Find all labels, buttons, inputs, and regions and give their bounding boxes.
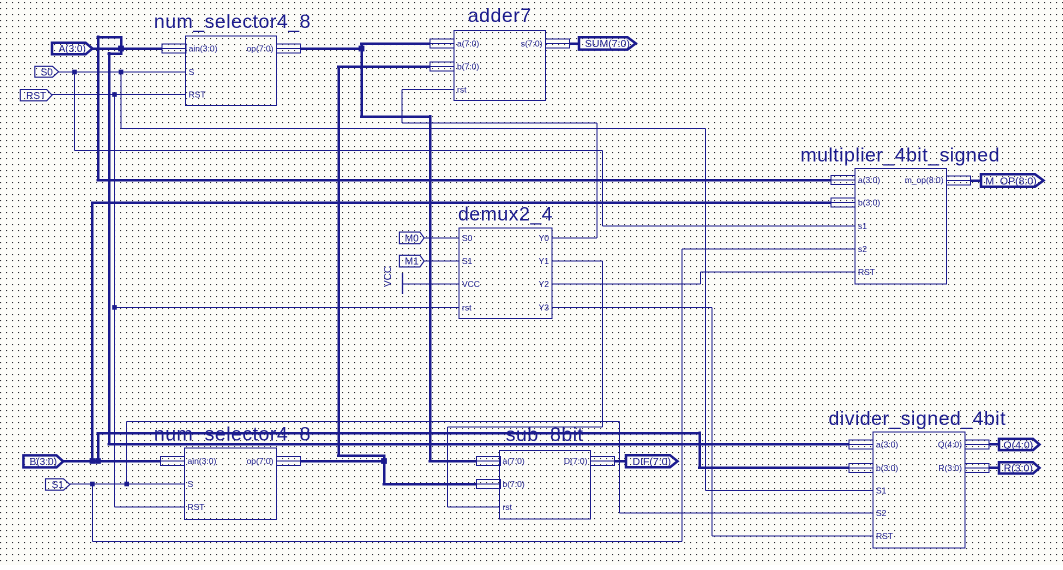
svg-text:VCC: VCC bbox=[383, 266, 394, 287]
wire divider R(3:0) to R tag bbox=[989, 467, 1000, 470]
wire S0 branch down x=74.5 bbox=[74, 72, 76, 151]
svg-text:RST: RST bbox=[26, 91, 46, 102]
wire S0 vertical x=602.5 bbox=[602, 151, 604, 226]
wire VCC symbol to demux VCC bbox=[403, 283, 460, 285]
wire adder s(7:0) to SUM tag bbox=[570, 42, 581, 45]
wire S1 tag to U6 S pin bbox=[70, 483, 185, 485]
wire A top bar to x=98 bbox=[97, 36, 123, 39]
input port RST bbox=[20, 90, 52, 102]
wire Y0 vertical x=402 bbox=[401, 90, 403, 124]
wire S1 branch down x=92.4 bbox=[91, 484, 93, 542]
svg-text:D(7:0): D(7:0) bbox=[564, 456, 588, 466]
wire op2 vertical x=384 bbox=[383, 456, 386, 485]
wire demux Y3 out bbox=[552, 306, 712, 308]
wire Y1 to sub rst bbox=[448, 506, 500, 508]
wire Y0 across y=123.2 bbox=[402, 122, 597, 124]
svg-text:b(3:0): b(3:0) bbox=[876, 463, 898, 473]
wire U1 op(7:0) to junction bbox=[301, 47, 362, 50]
component U5 sub_8bit bbox=[477, 424, 615, 519]
svg-text:b(7:0): b(7:0) bbox=[503, 479, 525, 489]
svg-text:S1: S1 bbox=[52, 480, 65, 491]
svg-text:s2: s2 bbox=[858, 244, 867, 254]
svg-text:b(3:0): b(3:0) bbox=[858, 198, 880, 208]
wire S0 across y=150.5 bbox=[75, 150, 603, 152]
wire S1 to multiplier s2 bbox=[682, 248, 855, 250]
svg-text:b(7:0): b(7:0) bbox=[457, 62, 479, 72]
component U1 num_selector4_8 (top) bbox=[154, 11, 311, 105]
input port B(3:0) bbox=[23, 455, 63, 468]
wire S0 vertical x=705.5 bbox=[705, 129, 707, 491]
wire RST tag to U1 RST pin bbox=[52, 94, 186, 96]
svg-text:num_selector4_8: num_selector4_8 bbox=[154, 424, 311, 446]
wire op2 to adder b(7:0) bbox=[337, 65, 430, 68]
component U6 num_selector4_8 (bottom) bbox=[154, 424, 311, 520]
output port SUM(7:0) bbox=[579, 37, 636, 50]
svg-text:rst: rst bbox=[462, 302, 472, 312]
power symbol VCC bbox=[383, 266, 403, 294]
junction S1 at (92.4,484) bbox=[90, 482, 95, 487]
svg-text:a(7:0): a(7:0) bbox=[503, 456, 525, 466]
input port S1 bbox=[46, 479, 70, 491]
input port S0 bbox=[35, 66, 59, 78]
svg-text:S0: S0 bbox=[41, 67, 54, 78]
wire M1 tag to demux S1 bbox=[424, 260, 459, 262]
wire demux Y1 out bbox=[552, 260, 603, 262]
svg-text:B(3:0): B(3:0) bbox=[30, 457, 57, 468]
svg-text:Q(4:0): Q(4:0) bbox=[1003, 439, 1033, 451]
svg-text:S0: S0 bbox=[462, 233, 473, 243]
wire A vertical x=98 down to multiplier row bbox=[97, 36, 100, 180]
wire S0 branch down x=121 bbox=[120, 72, 122, 129]
wire op1 vertical x=430 down to sub row bbox=[429, 115, 432, 461]
svg-text:num_selector4_8: num_selector4_8 bbox=[154, 11, 311, 33]
wire A vertical x=109 down to divider row bbox=[108, 52, 111, 444]
svg-text:M0: M0 bbox=[405, 234, 419, 245]
component U7 divider_signed_4bit bbox=[829, 408, 1007, 548]
svg-text:RST: RST bbox=[188, 502, 205, 512]
wire multiplier m_op(8:0) to M_OP tag bbox=[971, 179, 983, 182]
wire demux Y2 out bbox=[552, 283, 701, 285]
component U3 demux2_4 bbox=[458, 204, 553, 319]
wire op1 to adder a(7:0) bbox=[360, 42, 430, 45]
wire RST to demux rst pin bbox=[115, 306, 460, 308]
junction B at (98,461) bbox=[95, 458, 101, 464]
svg-text:op(7:0): op(7:0) bbox=[247, 44, 274, 54]
wire B vertical x=92 up to multiplier row bbox=[91, 203, 94, 462]
wire demux Y0 out bbox=[552, 237, 597, 239]
svg-text:S1: S1 bbox=[462, 256, 473, 266]
wire B vertical x=98 up to y=433 bbox=[97, 433, 100, 461]
wire RST vertical x=114.5 bbox=[114, 95, 116, 508]
svg-text:s1: s1 bbox=[858, 221, 867, 231]
svg-text:RST: RST bbox=[189, 90, 206, 100]
junction S1 at (126.7,484) bbox=[124, 482, 129, 487]
svg-text:demux2_4: demux2_4 bbox=[458, 204, 553, 226]
svg-text:RST: RST bbox=[876, 531, 893, 541]
svg-text:rst: rst bbox=[457, 85, 467, 95]
svg-text:A(3:0): A(3:0) bbox=[59, 44, 86, 55]
wire A(3:0) tag to U1 ain stub bbox=[92, 47, 162, 50]
output port M_OP(8:0) bbox=[981, 174, 1044, 187]
svg-text:S1: S1 bbox=[876, 486, 887, 496]
wire Y3 vertical x=712 bbox=[711, 307, 713, 535]
wire A to multiplier a(3:0) bbox=[97, 179, 831, 182]
svg-text:M_OP(8:0): M_OP(8:0) bbox=[985, 175, 1036, 187]
svg-text:Q(4:0): Q(4:0) bbox=[938, 439, 962, 449]
svg-text:ain(3:0): ain(3:0) bbox=[188, 456, 217, 466]
wire divider Q(4:0) to Q tag bbox=[989, 443, 1000, 446]
wire S0 to divider S1 bbox=[706, 490, 874, 492]
svg-text:m_op(8:0): m_op(8:0) bbox=[905, 175, 944, 185]
svg-text:rst: rst bbox=[503, 502, 513, 512]
junction op1 at (361.5,48.5) bbox=[359, 46, 365, 52]
junction S0 at (74.5,72) bbox=[72, 70, 77, 75]
svg-text:Y0: Y0 bbox=[539, 233, 550, 243]
wire S1 across y=541.5 bbox=[92, 541, 682, 543]
svg-text:ain(3:0): ain(3:0) bbox=[189, 44, 218, 54]
output port DIF(7:0) bbox=[626, 455, 678, 468]
wire Y1 across y=427 bbox=[448, 426, 603, 428]
wire op1 jog at y=116.5 bbox=[360, 115, 431, 118]
wire S0 to multiplier s1 bbox=[603, 225, 856, 227]
wire RST to U6 RST pin bbox=[115, 506, 185, 508]
component U2 adder7 bbox=[430, 5, 570, 100]
input port M0 bbox=[399, 232, 424, 244]
wire S0 across y=128.5 bbox=[121, 128, 706, 130]
wire Y2 jog x=700.6 bbox=[700, 272, 702, 284]
wire S1 across y=421.3 bbox=[127, 420, 620, 422]
svg-text:multiplier_4bit_signed: multiplier_4bit_signed bbox=[800, 145, 1000, 167]
wire B vertical x=699.5 bbox=[698, 432, 701, 468]
wire S0 tag to U1 s pin bbox=[59, 71, 186, 73]
svg-text:R(3:0): R(3:0) bbox=[1004, 463, 1033, 475]
wire op1 to sub a(7:0) bbox=[429, 460, 477, 463]
wire Y0 to adder rst bbox=[402, 89, 454, 91]
wire op2 jog at y=455.5 bbox=[337, 454, 385, 457]
wire S1 branch up x=126.7 bbox=[126, 421, 128, 484]
svg-text:divider_signed_4bit: divider_signed_4bit bbox=[829, 408, 1007, 430]
svg-text:RST: RST bbox=[858, 267, 875, 277]
svg-text:a(7:0): a(7:0) bbox=[457, 39, 479, 49]
svg-text:DIF(7:0): DIF(7:0) bbox=[632, 456, 671, 468]
svg-text:s(7:0): s(7:0) bbox=[521, 39, 543, 49]
svg-text:S2: S2 bbox=[876, 508, 887, 518]
svg-text:SUM(7:0): SUM(7:0) bbox=[585, 38, 630, 50]
svg-text:a(3:0): a(3:0) bbox=[858, 175, 880, 185]
junction op2 at (384,461) bbox=[381, 458, 387, 464]
wire B(3:0) tag to U6 ain stub bbox=[63, 460, 161, 463]
svg-text:op(7:0): op(7:0) bbox=[247, 456, 274, 466]
input port A(3:0) bbox=[52, 43, 92, 55]
svg-text:S: S bbox=[189, 67, 195, 77]
svg-text:Y1: Y1 bbox=[539, 256, 550, 266]
svg-text:Y3: Y3 bbox=[539, 302, 550, 312]
wire Y1 vertical x=602.5 bbox=[602, 261, 604, 427]
wire A branch vertical at x=121 bbox=[120, 37, 123, 55]
svg-text:S: S bbox=[188, 479, 194, 489]
svg-text:adder7: adder7 bbox=[468, 5, 532, 27]
svg-text:R(3:0): R(3:0) bbox=[938, 463, 962, 473]
wire Y2 to multiplier RST bbox=[701, 271, 855, 273]
junction S0 at (121,72) bbox=[119, 70, 124, 75]
wire Y1 vertical x=447.5 bbox=[447, 427, 449, 507]
wire S1 vertical x=619.3 bbox=[618, 421, 620, 513]
junction RST at (114.5,307.4) bbox=[112, 305, 117, 310]
wire B across at y=433 bbox=[97, 432, 701, 435]
wire op1 vertical at x=361.5 bbox=[360, 44, 363, 117]
wire S1 vertical x=682 bbox=[681, 249, 683, 542]
input port M1 bbox=[399, 255, 424, 267]
output port Q(4:0) bbox=[999, 439, 1040, 451]
wire B to divider b(3:0) bbox=[698, 466, 849, 469]
junction A at (121,48.5) bbox=[118, 46, 124, 52]
wire B to multiplier b(3:0) bbox=[91, 201, 831, 204]
junction B at (92.4,461) bbox=[90, 458, 96, 464]
wire op2 to sub b(7:0) bbox=[383, 483, 477, 486]
wire sub D(7:0) to DIF tag bbox=[615, 460, 628, 463]
svg-text:VCC: VCC bbox=[462, 279, 480, 289]
wire op2 vertical x=338.5 up to adder bbox=[337, 67, 340, 456]
wire M0 tag to demux S0 bbox=[424, 237, 459, 239]
junction RST at (114.5,94.5) bbox=[112, 92, 117, 97]
wire U6 op(7:0) across to junction x=384 bbox=[301, 460, 385, 463]
wire Y3 to divider RST bbox=[712, 535, 873, 537]
output port R(3:0) bbox=[999, 462, 1040, 474]
wire Y0 vertical x=597 bbox=[596, 123, 598, 238]
svg-text:a(3:0): a(3:0) bbox=[876, 439, 898, 449]
svg-text:Y2: Y2 bbox=[539, 279, 550, 289]
wire S1 to divider S2 bbox=[619, 512, 873, 514]
svg-text:M1: M1 bbox=[405, 257, 419, 268]
wire A to divider a(3:0) bbox=[108, 443, 849, 446]
component U4 multiplier_4bit_signed bbox=[800, 145, 1000, 284]
wire A jog to x=109 bbox=[108, 52, 123, 55]
